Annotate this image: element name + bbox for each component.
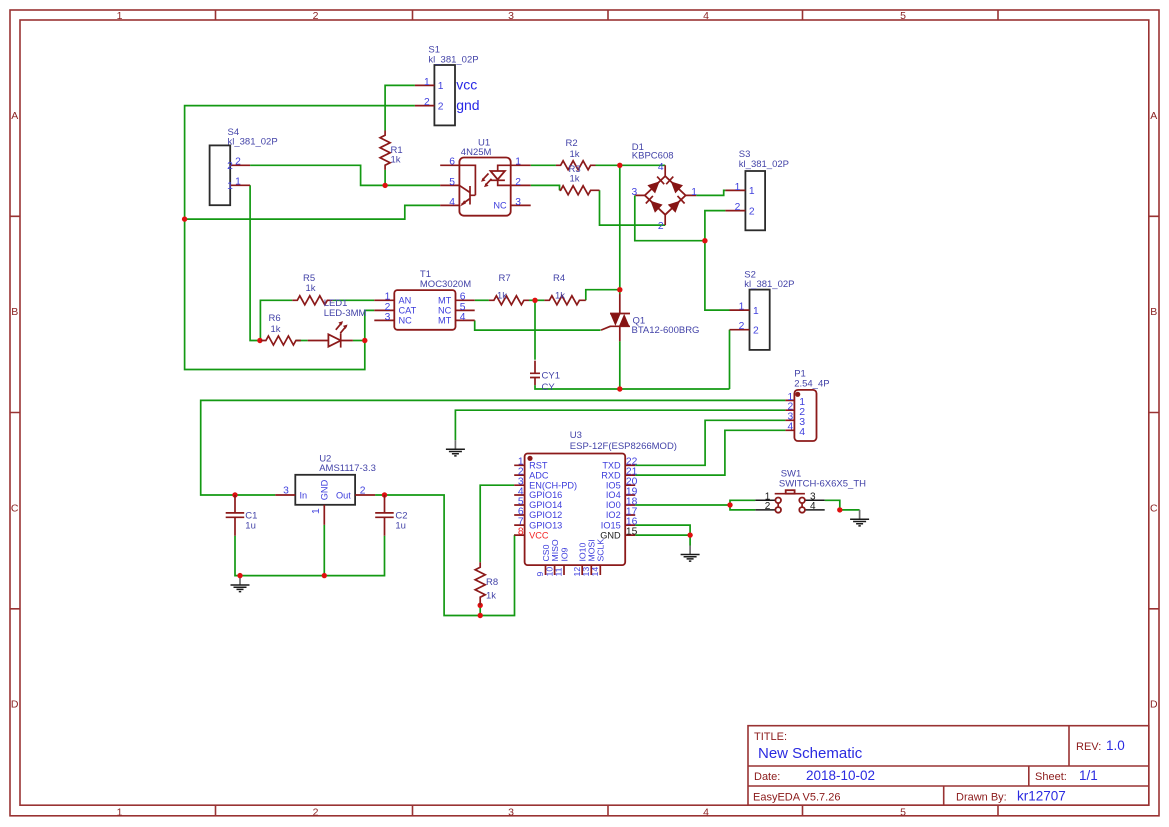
wire R2 right to junction — [596, 164, 620, 166]
svg-text:1: 1 — [515, 157, 521, 168]
svg-text:3: 3 — [385, 312, 391, 323]
U1 internal LED — [498, 165, 511, 185]
svg-text:1u: 1u — [395, 520, 406, 531]
column ticks top — [216, 10, 999, 20]
connector S1 kl_381_02P — [415, 45, 479, 126]
svg-text:Drawn By:: Drawn By: — [956, 792, 1007, 804]
svg-text:RST: RST — [529, 461, 548, 471]
svg-text:3: 3 — [508, 806, 514, 818]
svg-text:1k: 1k — [570, 149, 580, 160]
wire U1 pin2 to R3 — [531, 185, 560, 190]
svg-text:C: C — [1150, 503, 1158, 515]
svg-text:1: 1 — [235, 177, 241, 188]
node U3 gnd — [687, 532, 692, 537]
svg-text:4: 4 — [787, 422, 793, 433]
svg-text:2: 2 — [424, 97, 430, 108]
svg-text:5: 5 — [900, 10, 906, 22]
svg-text:kl_381_02P: kl_381_02P — [739, 159, 789, 170]
column labels bottom — [117, 806, 907, 818]
svg-text:1: 1 — [691, 187, 697, 198]
svg-text:NC: NC — [438, 306, 452, 316]
svg-text:R7: R7 — [499, 273, 511, 284]
svg-text:EN(CH-PD): EN(CH-PD) — [529, 480, 577, 490]
wire Q1 bottom to rail — [619, 341, 621, 389]
svg-text:New Schematic: New Schematic — [758, 745, 863, 762]
svg-text:R2: R2 — [566, 138, 578, 149]
svg-text:2: 2 — [765, 501, 771, 512]
node LED cathode — [362, 338, 367, 343]
svg-text:A: A — [1150, 110, 1157, 122]
U1 phototransistor — [459, 165, 475, 195]
wire U2 GND stem to rail — [323, 525, 325, 576]
svg-text:RXD: RXD — [601, 470, 621, 480]
svg-text:U3: U3 — [570, 430, 582, 441]
capacitor C1 — [226, 495, 258, 536]
node R4/Q1 top — [617, 287, 622, 292]
node C1 top — [232, 492, 237, 497]
title block — [748, 726, 1149, 806]
svg-text:TITLE:: TITLE: — [754, 731, 787, 743]
wire S1.1 to R1 top — [385, 85, 415, 130]
svg-text:GND: GND — [320, 479, 330, 500]
node R6/R5 — [257, 338, 262, 343]
node SW1 right — [837, 507, 842, 512]
svg-text:1: 1 — [117, 10, 123, 22]
svg-text:EasyEDA V5.7.26: EasyEDA V5.7.26 — [753, 792, 840, 804]
svg-text:2: 2 — [739, 321, 745, 332]
svg-text:1k: 1k — [306, 283, 316, 294]
wire EN(CH-PD) to R8 top — [480, 485, 514, 562]
svg-text:1: 1 — [753, 306, 759, 317]
connector S4 kl_381_02P — [210, 127, 278, 205]
svg-text:1: 1 — [117, 806, 123, 818]
svg-text:2: 2 — [515, 177, 521, 188]
wire S1.2 gnd long run left and down to LED cathode riser — [185, 106, 415, 370]
svg-text:gnd: gnd — [456, 97, 479, 113]
svg-text:C: C — [11, 503, 19, 515]
node gnd branch — [182, 216, 187, 221]
pushbutton SW1 SWITCH-6X6X5_TH — [755, 469, 866, 513]
wire CY1 bottom to bottom rail — [535, 385, 730, 389]
wire R1 bottom — [384, 170, 386, 186]
triac Q1 BTA12-600BRG — [601, 294, 699, 341]
column ticks bottom — [216, 805, 999, 816]
wire S2 pin2 down to rail — [729, 330, 731, 389]
diode D1 bottom-left — [650, 201, 662, 213]
node U2 gnd rail — [322, 573, 327, 578]
svg-text:KBPC608: KBPC608 — [632, 150, 674, 161]
connector S2 kl_381_02P — [730, 269, 795, 350]
svg-text:3: 3 — [515, 197, 521, 208]
svg-text:2: 2 — [438, 101, 444, 112]
node gnd stem rail — [237, 573, 242, 578]
wire S4.2 to U1 pin5 through R1 bottom junction — [250, 165, 440, 185]
node C2 top — [382, 492, 387, 497]
wire U3 TXD to P1.3 — [635, 420, 785, 465]
header P1 2.54_4P — [785, 369, 829, 441]
bridge rectifier D1 KBPC608 — [631, 142, 697, 232]
wire LED1 cathode to junction — [353, 340, 365, 342]
svg-text:IO2: IO2 — [606, 510, 621, 520]
svg-text:ADC: ADC — [529, 470, 549, 480]
svg-text:ESP-12F(ESP8266MOD): ESP-12F(ESP8266MOD) — [570, 441, 677, 452]
svg-text:B: B — [1150, 306, 1157, 318]
svg-text:NC: NC — [399, 316, 413, 326]
U3 left pin names — [529, 461, 577, 541]
row labels left — [11, 110, 19, 710]
svg-text:8: 8 — [518, 526, 524, 537]
svg-text:1k: 1k — [570, 173, 580, 184]
U3 pin1 mark — [527, 456, 532, 461]
svg-text:1k: 1k — [271, 324, 281, 335]
svg-text:1k: 1k — [391, 154, 401, 165]
wire R4 up to main line — [586, 290, 620, 301]
svg-text:1: 1 — [735, 182, 741, 193]
ground SW1 — [850, 510, 869, 526]
svg-text:kr12707: kr12707 — [1017, 789, 1066, 804]
resistor R5 — [292, 273, 332, 305]
svg-text:1k: 1k — [555, 291, 565, 302]
wire P1.2 rail to gnd stem — [455, 410, 785, 440]
svg-text:TXD: TXD — [602, 461, 621, 471]
svg-text:VCC: VCC — [529, 530, 549, 540]
svg-text:3: 3 — [631, 187, 637, 198]
svg-text:D: D — [1150, 698, 1158, 710]
U1 coupling arrows — [483, 174, 492, 186]
svg-text:4N25M: 4N25M — [461, 147, 492, 158]
wire R8 bottom to 3.3V rail — [479, 605, 481, 615]
LED1 LED-3MM — [308, 298, 367, 347]
resistor R3 — [560, 164, 600, 195]
wire junction up to S3 pin2 — [705, 211, 726, 241]
U3 bottom pins 9-14 — [546, 565, 601, 575]
svg-text:NC: NC — [493, 201, 507, 211]
node R1/S4.2/U1.5 — [382, 183, 387, 188]
svg-text:1: 1 — [424, 77, 430, 88]
resistor R6 — [261, 313, 301, 345]
svg-text:CY1: CY1 — [542, 371, 560, 382]
svg-text:2: 2 — [227, 161, 233, 172]
resistor R8 — [475, 562, 498, 605]
wire junction down to CY1 — [534, 300, 536, 359]
svg-text:R6: R6 — [269, 313, 281, 324]
svg-text:vcc: vcc — [456, 77, 477, 93]
svg-text:4: 4 — [799, 426, 805, 438]
svg-text:D: D — [11, 698, 19, 710]
svg-text:1: 1 — [438, 81, 444, 92]
svg-text:4: 4 — [449, 197, 455, 208]
row ticks right — [1149, 216, 1159, 609]
optotriac T1 MOC3020M — [374, 269, 474, 330]
svg-text:4: 4 — [703, 806, 709, 818]
optocoupler U1 4N25M — [440, 137, 531, 215]
svg-text:SCLK: SCLK — [596, 539, 606, 562]
wire R3 right down to bridge bottom — [600, 190, 666, 225]
wire R5 to T1 pin1 — [332, 299, 374, 301]
svg-text:2: 2 — [753, 325, 759, 336]
svg-text:1.0: 1.0 — [1106, 738, 1125, 753]
svg-text:IO15: IO15 — [601, 520, 621, 530]
svg-text:2: 2 — [735, 202, 741, 213]
resistor R2 — [556, 138, 596, 170]
svg-text:BTA12-600BRG: BTA12-600BRG — [632, 325, 700, 336]
wire C1 bottom to gnd rail to C2 bottom — [235, 536, 385, 576]
wire P1.1 long rail to U2 In — [201, 400, 786, 495]
svg-text:IO0: IO0 — [606, 500, 621, 510]
svg-text:1u: 1u — [245, 520, 256, 531]
diode D1 bottom-right — [668, 201, 680, 213]
wire junction up to T1 pin2 CAT — [365, 310, 375, 340]
svg-text:IO4: IO4 — [606, 490, 621, 500]
svg-text:AN: AN — [399, 296, 412, 306]
ground P1.2 — [446, 440, 465, 456]
U3 bottom pin names rotated — [541, 539, 606, 562]
P1 pin1 mark — [795, 392, 800, 397]
svg-text:LED-3MM: LED-3MM — [324, 308, 367, 319]
node R8 rail — [478, 613, 483, 618]
svg-text:4: 4 — [810, 501, 816, 512]
svg-text:2018-10-02: 2018-10-02 — [806, 768, 875, 783]
svg-text:R4: R4 — [553, 273, 565, 284]
svg-text:AMS1117-3.3: AMS1117-3.3 — [319, 463, 376, 474]
wire junction up to R5 — [260, 300, 292, 340]
svg-text:1/1: 1/1 — [1079, 768, 1098, 783]
svg-text:1: 1 — [749, 186, 755, 197]
svg-text:1: 1 — [739, 302, 745, 313]
row ticks left — [10, 216, 20, 609]
resistor R4 — [544, 273, 585, 305]
wire bridge top lead — [620, 164, 665, 166]
svg-text:1: 1 — [311, 508, 322, 514]
svg-text:Out: Out — [336, 490, 351, 500]
column labels top — [117, 10, 907, 22]
svg-text:5: 5 — [449, 177, 455, 188]
svg-text:GPIO14: GPIO14 — [529, 500, 562, 510]
wire junction down to S2 pin1 — [705, 241, 730, 310]
node Q1 bottom rail — [617, 386, 622, 391]
svg-text:kl_381_02P: kl_381_02P — [228, 137, 278, 148]
ground C1 rail — [231, 576, 250, 592]
svg-text:2: 2 — [313, 10, 319, 22]
svg-text:IO5: IO5 — [606, 480, 621, 490]
diode D1 top-left — [647, 181, 659, 193]
svg-text:B: B — [11, 306, 18, 318]
svg-text:GPIO13: GPIO13 — [529, 520, 562, 530]
svg-text:MT: MT — [438, 296, 452, 306]
svg-text:2: 2 — [235, 157, 241, 168]
svg-text:Sheet:: Sheet: — [1035, 771, 1067, 783]
wire bridge left down to junction — [635, 195, 705, 240]
svg-text:CY: CY — [542, 382, 556, 393]
svg-text:14: 14 — [590, 567, 600, 577]
capacitor C2 — [375, 495, 407, 536]
resistor R7 — [489, 273, 529, 305]
svg-text:11: 11 — [554, 567, 564, 576]
wire SW1 right to gnd — [825, 500, 860, 510]
svg-text:A: A — [11, 110, 18, 122]
svg-text:MT: MT — [438, 316, 452, 326]
regulator U2 AMS1117-3.3 — [275, 453, 376, 525]
svg-text:1k: 1k — [497, 291, 507, 302]
svg-text:15: 15 — [626, 526, 638, 537]
U3 right pin names — [600, 461, 621, 541]
U3 left pin numbers — [518, 457, 524, 538]
svg-text:2: 2 — [658, 221, 664, 232]
svg-text:REV:: REV: — [1076, 741, 1101, 753]
svg-text:CAT: CAT — [399, 306, 417, 316]
svg-text:IO9: IO9 — [559, 547, 569, 561]
svg-text:5: 5 — [900, 806, 906, 818]
svg-text:2.54_4P: 2.54_4P — [794, 378, 829, 389]
wire U3 IO15 to gnd junction — [635, 525, 690, 535]
svg-text:R8: R8 — [486, 577, 498, 588]
svg-text:4: 4 — [658, 162, 664, 173]
svg-text:2: 2 — [749, 206, 755, 217]
node bridge left branch — [702, 238, 707, 243]
wire U1 pin1 to R2 — [531, 164, 556, 166]
wire T1 pin4 to Q1 gate — [475, 320, 601, 330]
U3 bottom pin numbers rotated — [535, 567, 600, 577]
node R2/bridge top — [617, 163, 622, 168]
svg-text:6: 6 — [449, 157, 455, 168]
wire T1 pin6 to R7 — [475, 299, 489, 301]
svg-text:kl_381_02P: kl_381_02P — [744, 279, 794, 290]
node R7/R4/CY1 — [532, 298, 537, 303]
svg-text:4: 4 — [703, 10, 709, 22]
U3 right pins 22-15 — [625, 465, 635, 535]
svg-text:3: 3 — [508, 10, 514, 22]
connector S3 kl_381_02P — [725, 149, 789, 230]
wire SW1 left split — [730, 500, 755, 510]
svg-text:In: In — [300, 490, 308, 500]
wire bridge right to S3 pin1 — [696, 190, 725, 195]
svg-text:2: 2 — [360, 486, 366, 497]
wire main vertical R2 junction to Q1 top — [619, 165, 621, 294]
resistor R1 — [380, 131, 403, 170]
wire U2 Out to C2 junction and 3.3V run — [375, 495, 514, 616]
svg-text:kl_381_02P: kl_381_02P — [428, 55, 478, 66]
svg-text:GPIO16: GPIO16 — [529, 490, 562, 500]
U3 right pin numbers — [626, 457, 638, 538]
ground U3 — [681, 546, 700, 562]
svg-text:3: 3 — [283, 486, 289, 497]
svg-text:SWITCH-6X6X5_TH: SWITCH-6X6X5_TH — [779, 478, 866, 489]
wire branch to U1 pin4 — [185, 205, 441, 219]
svg-text:MOC3020M: MOC3020M — [420, 279, 471, 290]
wire U3 IO0 to SW1 — [635, 504, 730, 506]
wire U3 RXD to P1.4 — [635, 430, 785, 475]
svg-text:Date:: Date: — [754, 771, 780, 783]
wire U3 GND pin to gnd — [635, 535, 690, 545]
wire R7 to junction to R4 — [529, 299, 544, 301]
row labels right — [1150, 110, 1158, 710]
wire R6 to LED1 anode — [296, 340, 308, 342]
node SW1 left — [727, 502, 732, 507]
svg-text:1k: 1k — [486, 590, 496, 601]
wire S4.1 down to R6 junction — [250, 185, 260, 340]
svg-text:2: 2 — [313, 806, 319, 818]
module U3 ESP-12F(ESP8266MOD) — [514, 430, 677, 576]
svg-text:4: 4 — [460, 312, 466, 323]
svg-text:1: 1 — [227, 181, 233, 192]
capacitor CY1 — [530, 361, 560, 394]
diode D1 top-right — [671, 181, 683, 193]
U3 left pins 1-8 — [514, 465, 524, 535]
node R8 bottom — [478, 603, 483, 608]
svg-text:GPIO12: GPIO12 — [529, 510, 562, 520]
